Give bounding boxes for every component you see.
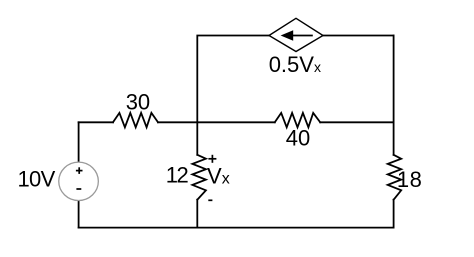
svg-text:30: 30: [126, 89, 150, 114]
svg-text:40: 40: [286, 126, 310, 151]
svg-text:10V: 10V: [18, 167, 56, 192]
svg-text:0.5Vx: 0.5Vx: [269, 52, 321, 77]
svg-text:18: 18: [397, 167, 422, 192]
svg-text:12: 12: [166, 163, 189, 188]
